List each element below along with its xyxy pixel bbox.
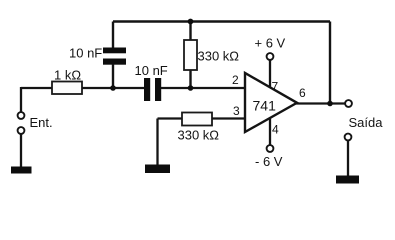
junction dot output/feedback — [327, 101, 333, 107]
wire pin 4 to -6V terminal — [269, 118, 271, 145]
junction dot R2 top on feedback wire — [188, 19, 194, 25]
wire from C1 bottom to node A — [112, 64, 114, 88]
wire Saida lower terminal to ground — [347, 140, 349, 176]
capacitor C1 10 nF (vertical) — [103, 48, 126, 65]
capacitor C2 10 nF (horizontal) — [144, 78, 161, 101]
svg-text:Ent.: Ent. — [30, 115, 53, 130]
wire output pin 6 to Saida terminal — [296, 102, 345, 104]
wire R3 to pin 3 of U1 — [212, 117, 245, 119]
wire R3 vertical to ground — [156, 119, 158, 166]
terminal input lower circle — [18, 127, 25, 134]
resistor R2 330 kOhm (vertical) leads — [189, 22, 191, 42]
resistor R3 330 kOhm body — [182, 113, 212, 126]
terminal Saida upper circle — [345, 100, 352, 107]
wire feedback vertical right side — [329, 22, 331, 104]
ground input — [11, 167, 32, 174]
svg-text:1 kΩ: 1 kΩ — [54, 68, 81, 83]
wire input vertical to terminal — [20, 87, 22, 112]
wire C2 to pin 2 of U1 — [161, 87, 245, 89]
resistor R2 330 kOhm body — [184, 40, 197, 70]
wire vertical into capacitor C1 top — [112, 22, 114, 50]
junction dot R2 bottom on pin2 wire — [188, 85, 194, 91]
svg-text:- 6 V: - 6 V — [255, 154, 283, 169]
svg-text:6: 6 — [299, 86, 306, 100]
svg-text:4: 4 — [272, 123, 279, 137]
terminal -6V circle — [267, 145, 274, 152]
svg-text:330 kΩ: 330 kΩ — [178, 128, 220, 143]
wire lower input terminal to ground — [20, 134, 22, 167]
svg-text:10 nF: 10 nF — [69, 46, 102, 61]
ground R3 — [145, 165, 170, 174]
svg-text:2: 2 — [232, 73, 239, 87]
terminal +6V circle — [267, 53, 274, 60]
svg-text:10 nF: 10 nF — [135, 63, 168, 78]
svg-text:7: 7 — [272, 80, 279, 94]
wire top horizontal from C1 branch to feedback corner — [113, 20, 330, 22]
svg-text:+ 6 V: + 6 V — [255, 36, 286, 51]
terminal Saida lower circle — [345, 134, 352, 141]
resistor R1 1 kOhm body — [52, 82, 82, 95]
wire R1 to capacitor C2 — [82, 87, 145, 89]
node A junction dot — [110, 85, 116, 91]
svg-text:Saída: Saída — [349, 115, 384, 130]
svg-text:330 kΩ: 330 kΩ — [198, 49, 240, 64]
wire pin 3 line — [158, 117, 183, 119]
ground output — [336, 176, 359, 184]
terminal input upper circle — [18, 112, 25, 119]
svg-text:3: 3 — [233, 104, 240, 118]
wire pin 7 to +6V terminal — [269, 60, 271, 87]
wire input line left segment — [21, 87, 53, 89]
op-amp U1 741 triangle — [245, 73, 297, 132]
svg-text:741: 741 — [253, 98, 277, 114]
